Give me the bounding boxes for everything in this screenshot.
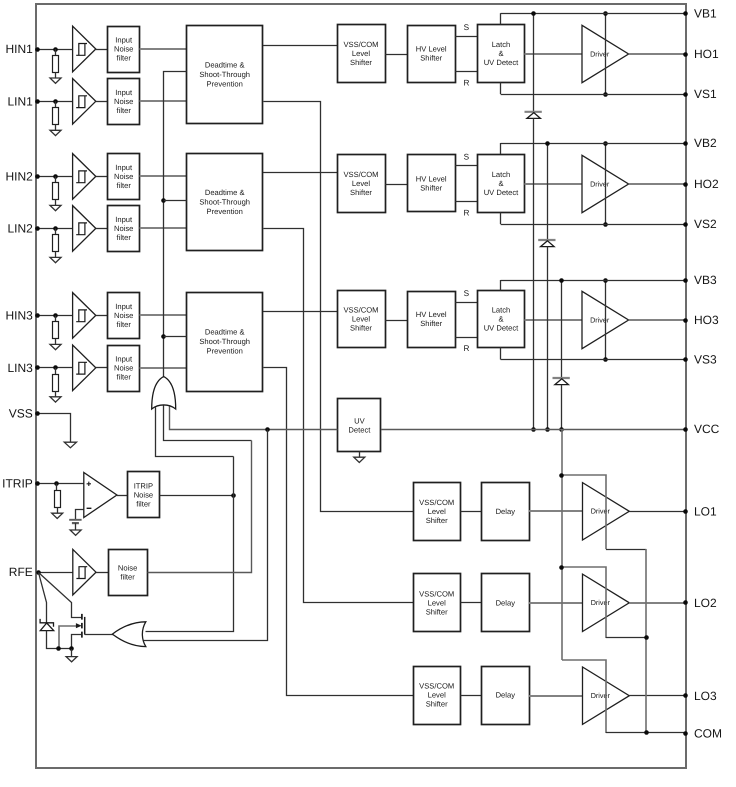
wire VB1 line: [501, 13, 686, 15]
wire ITRIP signal to OR gates: [146, 457, 234, 632]
svg-text:HIN1: HIN1: [5, 42, 33, 56]
wire LO2 driver return: [606, 637, 646, 639]
svg-text:HIN2: HIN2: [5, 170, 33, 184]
wire ITRIP resistor to ground: [57, 507, 59, 513]
transistor Q1 (RFE pulldown MOSFET): [81, 614, 83, 638]
svg-text:Driver: Driver: [590, 315, 610, 324]
ground for ITRIP resistor: [52, 513, 63, 518]
wire VSS/COM shifter to HV level shifter channel 1: [385, 54, 407, 56]
resistor R3: [53, 183, 59, 200]
svg-text:Driver: Driver: [591, 691, 611, 700]
wire resistor R1 to ground: [55, 72, 57, 78]
junction VB3 diode column: [559, 278, 564, 283]
wire LO1 driver return: [606, 549, 646, 551]
junction HIN2/resistor: [53, 174, 58, 179]
wire delay to driver LO3: [529, 695, 582, 697]
wire latch to VS1 channel 1: [500, 82, 502, 94]
wire latch to VS3 channel 3: [500, 348, 502, 360]
wire resistor R3 to ground: [55, 200, 57, 206]
wire latch to driver channel 1: [525, 53, 583, 55]
wire buffer to input noise filter 2: [96, 101, 108, 103]
wire OR input 1 (from ITRIP): [156, 408, 234, 457]
ground for LIN2 resistor: [50, 257, 61, 262]
svg-text:COM: COM: [694, 726, 722, 740]
wire deadtime 1 low-side output to LO1 level shifter: [264, 102, 414, 512]
deadtime &amp; shoot-through prevention block 3: [187, 293, 263, 392]
wire VSS to ground: [38, 414, 71, 443]
node HIN2 pin: [35, 174, 40, 179]
node ITRIP pin: [35, 481, 40, 486]
resistor R4: [53, 235, 59, 252]
wire buffer to input noise filter 3: [96, 176, 108, 178]
wire input noise filter 6 to deadtime block: [140, 367, 187, 369]
svg-text:InputNoisefilter: InputNoisefilter: [114, 163, 133, 190]
driver U2 (low side): [583, 574, 630, 631]
wire to resistor R4: [55, 228, 57, 234]
node VS1: [683, 92, 688, 97]
input noise filter block 6 (LIN3): [108, 346, 140, 392]
svg-text:HO3: HO3: [694, 313, 719, 327]
wire UV/latch line to left OR gate: [144, 430, 268, 641]
junction LIN3/resistor: [53, 365, 58, 370]
driver U3 (low side): [583, 667, 630, 724]
wire VB2 tap to latch channel 2: [500, 143, 502, 154]
wire COM return rail: [645, 549, 647, 733]
junction HIN3/resistor: [53, 313, 58, 318]
wire bootstrap diode D3 to VCC: [561, 385, 563, 429]
wire zener to ground bus: [47, 631, 72, 649]
VSS/COM level shifter block channel 3: [338, 291, 386, 348]
delay block LO2: [482, 574, 530, 632]
svg-text:ITRIPNoisefilter: ITRIPNoisefilter: [134, 482, 153, 509]
svg-text:Deadtime &Shoot-ThroughPrevent: Deadtime &Shoot-ThroughPrevention: [199, 328, 250, 356]
wire to resistor R5: [55, 315, 57, 321]
deadtime &amp; shoot-through prevention block 1: [187, 26, 263, 124]
resistor R1: [53, 56, 59, 73]
wire deadtime 2 to VSS/COM level shifter 2: [263, 172, 337, 174]
wire shifter to delay LO3: [460, 695, 481, 697]
node LO3: [683, 693, 688, 698]
svg-text:Noisefilter: Noisefilter: [118, 564, 137, 582]
wire ITRIP noise filter output: [160, 495, 234, 497]
wire LIN1 input: [38, 101, 73, 103]
node LIN1 pin: [35, 99, 40, 104]
schmitt buffer U3 (HIN2): [73, 154, 96, 200]
wire shutdown feedback (OR output to deadtime blocks): [164, 72, 187, 377]
schmitt buffer U4 (LIN2): [73, 206, 96, 252]
node VB1: [683, 11, 688, 16]
svg-text:LIN1: LIN1: [7, 94, 33, 108]
svg-text:HIN3: HIN3: [5, 309, 33, 323]
latch &amp; UV detect block channel 2: [478, 155, 525, 213]
junction ITRIP signal: [231, 493, 236, 498]
wire VB3 tap to latch channel 3: [500, 280, 502, 291]
wire deadtime 3 low-side output to LO3 level shifter: [264, 368, 414, 696]
svg-text:Driver: Driver: [590, 49, 610, 58]
wire resistor R2 to ground: [55, 125, 57, 131]
svg-text:ITRIP: ITRIP: [2, 477, 33, 491]
svg-text:Deadtime &Shoot-ThroughPrevent: Deadtime &Shoot-ThroughPrevention: [199, 188, 250, 216]
wire buffer to input noise filter 4: [96, 228, 108, 230]
junction LIN1/resistor: [53, 99, 58, 104]
noise filter block (RFE): [109, 550, 148, 596]
wire driver output to HO2: [629, 183, 686, 185]
node VSS pin: [35, 411, 40, 416]
wire buffer to input noise filter 1: [96, 49, 108, 51]
svg-text:VB2: VB2: [694, 136, 717, 150]
input noise filter block 2 (LIN1): [108, 79, 140, 125]
svg-text:InputNoisefilter: InputNoisefilter: [114, 88, 133, 115]
bootstrap diode D3: [553, 377, 570, 379]
wire buffer to input noise filter 5: [96, 315, 108, 317]
junction driver rail VB2: [603, 141, 608, 146]
ground for HIN1 resistor: [50, 78, 61, 83]
wire deadtime 1 to VSS/COM level shifter 1: [263, 45, 337, 47]
junction driver rail VB3: [603, 278, 608, 283]
wire VB2 line: [501, 143, 686, 145]
junction VB1 diode column: [531, 11, 536, 16]
wire S (set) channel 2: [455, 165, 477, 167]
wire R (reset) channel 1: [455, 71, 477, 73]
wire driver output to LO3: [629, 695, 685, 697]
wire ground bus to ground: [71, 649, 73, 657]
node VB3: [683, 278, 688, 283]
svg-text:S: S: [464, 289, 470, 298]
wire driver supply tap LO2: [562, 567, 606, 638]
svg-text:R: R: [463, 79, 469, 88]
wire UV detect output to VCC pin: [381, 429, 686, 431]
junction HIN1/resistor: [53, 47, 58, 52]
node COM: [683, 731, 688, 736]
latch &amp; UV detect block channel 1: [478, 25, 525, 83]
svg-text:S: S: [464, 153, 470, 162]
svg-text:VS1: VS1: [694, 87, 717, 101]
node VS2: [683, 222, 688, 227]
svg-text:R: R: [463, 209, 469, 218]
junction ITRIP/resistor: [54, 481, 59, 486]
wire R (reset) channel 3: [455, 337, 477, 339]
wire ITRIP input: [38, 483, 84, 485]
junction driver rail VS2: [603, 222, 608, 227]
wire VS2 line: [501, 224, 686, 226]
svg-text:S: S: [464, 23, 470, 32]
ground for LIN1 resistor: [50, 130, 61, 135]
wire driver supply tap LO1: [562, 475, 606, 549]
wire VCC rail to low side drivers: [561, 429, 563, 660]
input noise filter block 5 (HIN3): [108, 293, 140, 339]
node VB2: [683, 141, 688, 146]
wire driver output to HO3: [629, 319, 686, 321]
reference voltage source (battery): [69, 519, 81, 521]
wire to resistor R6: [55, 368, 57, 374]
svg-text:VS3: VS3: [694, 353, 717, 367]
svg-text:VS2: VS2: [694, 217, 717, 231]
node HO1: [683, 52, 688, 57]
junction body/ground bus: [56, 646, 61, 651]
wire UV detect to ground: [359, 452, 361, 458]
svg-text:InputNoisefilter: InputNoisefilter: [114, 355, 133, 382]
resistor R2: [53, 108, 59, 125]
junction source/ground bus: [69, 646, 74, 651]
wire HIN3 input: [38, 315, 73, 317]
wire LO3 driver return to COM: [606, 732, 686, 734]
wire deadtime 3 to VSS/COM level shifter 3: [263, 311, 337, 313]
svg-text:Delay: Delay: [496, 691, 516, 700]
node LIN2 pin: [35, 226, 40, 231]
wire VSS/COM shifter to HV level shifter channel 3: [385, 320, 407, 322]
delay block LO3: [482, 667, 530, 725]
schmitt buffer U1 (HIN1): [73, 26, 96, 72]
svg-text:InputNoisefilter: InputNoisefilter: [114, 36, 133, 63]
node HIN3 pin: [35, 313, 40, 318]
wire OR gate to Q1 gate: [85, 634, 113, 636]
OR gate fault shutdown (points up): [152, 377, 176, 409]
junction diode D1 at VCC: [531, 427, 536, 432]
VSS/COM level shifter block LO2: [414, 574, 461, 632]
wire shifter to delay LO2: [460, 602, 481, 604]
svg-text:LIN2: LIN2: [7, 222, 33, 236]
wire VS1 line: [501, 94, 686, 96]
resistor R6: [53, 375, 59, 392]
svg-text:RFE: RFE: [9, 565, 33, 579]
ground for VSS: [64, 442, 76, 448]
junction feedback to deadtime 2: [161, 198, 166, 203]
node HO2: [683, 182, 688, 187]
wire comparator to ITRIP noise filter: [117, 495, 127, 497]
wire S (set) channel 3: [455, 302, 477, 304]
junction rail tap LO2: [559, 565, 564, 570]
VSS/COM level shifter block channel 2: [338, 155, 386, 213]
junction rail tap LO1: [559, 473, 564, 478]
VSS/COM level shifter block LO3: [414, 667, 461, 725]
HV level shifter block channel 2: [408, 155, 456, 212]
svg-text:Driver: Driver: [591, 598, 611, 607]
wire buffer to input noise filter 6: [96, 367, 108, 369]
wire input noise filter 1 to deadtime block: [140, 48, 187, 50]
wire driver supply rail channel 3: [605, 280, 607, 360]
junction COM return rail: [644, 730, 649, 735]
node LO1: [683, 509, 688, 514]
wire LIN2 input: [38, 228, 73, 230]
svg-text:HO1: HO1: [694, 47, 719, 61]
wire RFE buffer to noise filter: [96, 572, 108, 574]
node VCC: [683, 427, 688, 432]
junction driver rail VS3: [603, 357, 608, 362]
ITRIP noise filter block: [128, 472, 160, 518]
wire R (reset) channel 2: [455, 201, 477, 203]
wire VS3 line: [501, 359, 686, 361]
wire S (set) channel 1: [455, 36, 477, 38]
junction driver rail VS1: [603, 92, 608, 97]
wire Q1 source: [72, 635, 82, 649]
svg-text:LIN3: LIN3: [7, 361, 33, 375]
wire latch to VS2 channel 2: [500, 212, 502, 224]
junction feedback to deadtime 3: [161, 334, 166, 339]
wire driver supply tap LO3: [562, 660, 606, 733]
wire UV detect to fault OR gate: [170, 407, 338, 430]
wire delay to driver LO2: [529, 602, 582, 604]
wire delay to driver LO1: [529, 510, 582, 512]
wire bootstrap diode D1 to VCC: [533, 118, 535, 429]
node VS3: [683, 357, 688, 362]
wire resistor R4 to ground: [55, 252, 57, 258]
UV detect block: [338, 399, 381, 452]
resistor R7 (ITRIP): [55, 491, 61, 508]
bootstrap diode D2: [538, 239, 555, 241]
wire LIN3 input: [38, 367, 73, 369]
svg-text:Delay: Delay: [496, 507, 516, 516]
wire input noise filter 5 to deadtime block: [140, 314, 187, 316]
wire deadtime 2 low-side output to LO2 level shifter: [264, 229, 414, 603]
wire OR input 2 (from RFE noise filter): [164, 406, 252, 441]
junction UV line / RFE latch line: [265, 427, 270, 432]
node LIN3 pin: [35, 365, 40, 370]
svg-text:VCC: VCC: [694, 422, 720, 436]
wire bootstrap diode D2 to VCC: [547, 247, 549, 429]
schmitt buffer U6 (LIN3): [73, 345, 96, 391]
schmitt buffer U2 (LIN1): [73, 79, 96, 125]
svg-text:VSS: VSS: [9, 407, 33, 421]
driver U1 (high side): [582, 25, 629, 82]
wire VB3 to bootstrap diode D3: [561, 280, 563, 378]
svg-text:R: R: [463, 344, 469, 353]
input noise filter block 1 (HIN1): [108, 27, 140, 73]
wire comparator reference input: [76, 510, 84, 520]
wire VB1 tap to latch channel 1: [500, 13, 502, 24]
svg-text:Deadtime &Shoot-ThroughPrevent: Deadtime &Shoot-ThroughPrevention: [199, 60, 250, 88]
schmitt buffer U5 (HIN3): [73, 293, 96, 339]
wire driver output to LO1: [629, 511, 685, 513]
resistor R5: [53, 322, 59, 339]
svg-text:Driver: Driver: [591, 507, 611, 516]
wire HIN2 input: [38, 176, 73, 178]
junction diode D2 at VCC: [545, 427, 550, 432]
svg-text:HO2: HO2: [694, 177, 719, 191]
node HO3: [683, 318, 688, 323]
node HIN1 pin: [35, 47, 40, 52]
VSS/COM level shifter block LO1: [414, 483, 461, 541]
wire RFE noise filter to OR gate: [148, 441, 252, 573]
wire latch to driver channel 2: [525, 183, 583, 185]
wire input noise filter 4 to deadtime block: [140, 227, 187, 229]
input noise filter block 3 (HIN2): [108, 154, 140, 200]
driver U1 (low side): [583, 483, 630, 540]
wire driver supply rail channel 1: [605, 13, 607, 94]
wire resistor R5 to ground: [55, 339, 57, 345]
wire VB2 to bootstrap diode D2: [547, 143, 549, 240]
wire VB1 to bootstrap diode D1: [533, 13, 535, 112]
node RFE pin: [36, 570, 41, 575]
driver U2 (high side): [582, 155, 629, 212]
wire reference to ground: [75, 523, 77, 530]
wire HIN1 input: [38, 49, 73, 51]
svg-text:VB1: VB1: [694, 6, 717, 20]
HV level shifter block channel 3: [408, 292, 456, 348]
wire to resistor R3: [55, 176, 57, 182]
HV level shifter block channel 1: [408, 26, 456, 83]
wire RFE to zener diode: [39, 573, 47, 623]
wire to resistor R1: [55, 49, 57, 55]
svg-text:Delay: Delay: [496, 599, 516, 608]
svg-text:InputNoisefilter: InputNoisefilter: [114, 302, 133, 329]
ground for reference: [70, 530, 81, 535]
wire driver output to HO1: [629, 53, 686, 55]
wire Q1 body connection: [59, 626, 77, 649]
OR gate RFE latch (points left): [112, 622, 145, 647]
svg-text:InputNoisefilter: InputNoisefilter: [114, 215, 133, 242]
wire feedback branch to deadtime 3: [164, 336, 187, 338]
svg-text:LO3: LO3: [694, 689, 717, 703]
bootstrap diode D1: [525, 111, 542, 113]
junction driver rail VB1: [603, 11, 608, 16]
wire feedback branch to deadtime 2: [164, 200, 187, 202]
delay block LO1: [482, 483, 530, 541]
ground for LIN3 resistor: [50, 397, 61, 402]
wire driver supply rail channel 2: [605, 143, 607, 224]
VSS/COM level shifter block channel 1: [338, 25, 386, 83]
deadtime &amp; shoot-through prevention block 2: [187, 154, 263, 251]
wire RFE input: [38, 572, 73, 574]
svg-text:VB3: VB3: [694, 273, 717, 287]
wire input noise filter 3 to deadtime block: [140, 175, 187, 177]
svg-text:LO2: LO2: [694, 596, 717, 610]
junction LO2 return: [644, 635, 649, 640]
ground for HIN3 resistor: [50, 344, 61, 349]
junction LIN2/resistor: [53, 226, 58, 231]
input noise filter block 4 (LIN2): [108, 206, 140, 252]
wire driver output to LO2: [629, 602, 685, 604]
wire resistor R6 to ground: [55, 391, 57, 397]
ground for UV detect: [354, 457, 365, 462]
svg-text:LO1: LO1: [694, 504, 717, 518]
wire shifter to delay LO1: [460, 511, 481, 513]
wire to ITRIP resistor: [56, 484, 58, 491]
wire to resistor R2: [55, 101, 57, 107]
wire VB3 line: [501, 280, 686, 282]
ground for HIN2 resistor: [50, 205, 61, 210]
junction diode D3 at VCC: [559, 427, 564, 432]
zener diode D4 (RFE clamp): [40, 619, 53, 627]
node LO2: [683, 600, 688, 605]
wire input noise filter 2 to deadtime block: [140, 100, 187, 102]
wire RFE to MOSFET drain: [39, 573, 82, 618]
svg-text:Driver: Driver: [590, 179, 610, 188]
driver U3 (high side): [582, 291, 629, 348]
ground for RFE network: [66, 657, 77, 662]
comparator U7 (ITRIP): [84, 473, 117, 518]
schmitt buffer U8 (RFE): [73, 549, 96, 595]
wire latch to driver channel 3: [525, 319, 583, 321]
junction VB2 diode column: [545, 141, 550, 146]
wire VSS/COM shifter to HV level shifter channel 2: [385, 184, 407, 186]
latch &amp; UV detect block channel 3: [478, 291, 525, 348]
